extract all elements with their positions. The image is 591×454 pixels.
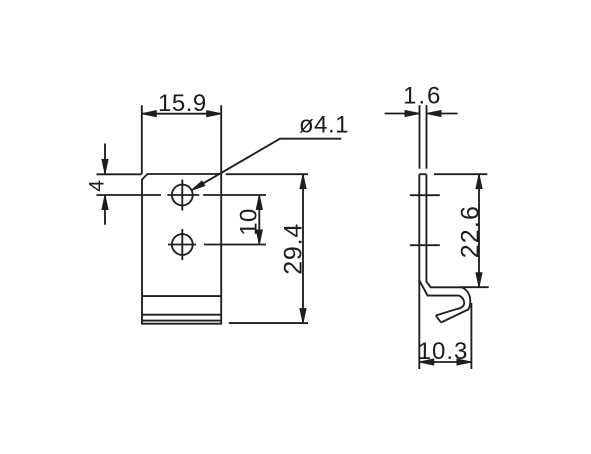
dim 29.4 line: [302, 174, 304, 323]
side profile top cap: [419, 173, 426, 175]
arrow 10.3 right: [457, 359, 472, 365]
arrow leader 4.1: [191, 181, 205, 190]
dim 4 lines: [97, 144, 142, 225]
arrow 10 bottom (down): [256, 230, 262, 245]
arrow 15.9 right: [207, 111, 222, 117]
centerline H1 vertical: [181, 180, 183, 211]
svg-text:ø4.1: ø4.1: [299, 112, 349, 139]
dim 22.6 extension lines: [434, 174, 489, 287]
side hole tick 2: [410, 244, 440, 246]
hole H1: [172, 185, 193, 206]
arrow 4 top (down): [102, 159, 108, 174]
side profile outer bend bottom: [419, 280, 459, 295]
dim 10.3 extension lines: [470, 303, 472, 369]
arrow 10 top (up): [256, 195, 262, 210]
hole H2: [172, 234, 193, 255]
hook inner curl and tail: [436, 296, 464, 316]
svg-text:4: 4: [86, 180, 109, 192]
arrow 4 bottom (up): [102, 195, 108, 210]
dim 15.9 extension lines: [142, 105, 221, 174]
svg-text:10: 10: [236, 208, 263, 236]
arrow 15.9 left: [142, 111, 157, 117]
arrow 29.4 bottom (down): [300, 309, 306, 324]
centerline H2 vertical: [181, 229, 183, 260]
side profile left outer edge: [418, 174, 420, 369]
side view 1.6 extension lines: [420, 105, 427, 169]
hook outer curl and tail: [441, 287, 470, 322]
arrow 29.4 top (up): [300, 174, 306, 189]
dim 10.3 line: [419, 361, 471, 363]
side profile inner edge: [426, 174, 461, 287]
arrow 1.6 right (pointing left): [427, 110, 442, 116]
svg-text:15.9: 15.9: [158, 90, 207, 117]
dim 15.9 line: [142, 113, 221, 115]
arrow 10.3 left: [419, 359, 434, 365]
hook tip cap: [436, 316, 441, 323]
centerline H2 horizontal: [168, 244, 266, 246]
svg-text:22.6: 22.6: [457, 205, 485, 258]
centerline H1 horizontal: [97, 194, 267, 196]
dim 10 line: [258, 195, 260, 245]
side hole tick 1: [410, 194, 440, 196]
plate outline (front view): [142, 174, 221, 324]
arrow 22.6 bottom (down): [476, 273, 482, 288]
dim 29.4 extension lines: [226, 174, 308, 323]
bend line 1: [142, 295, 221, 297]
svg-text:1.6: 1.6: [403, 82, 442, 109]
dim 1.6 lines: [385, 113, 458, 115]
dim 22.6 line: [478, 174, 480, 287]
leader dia 4.1: [191, 139, 341, 191]
svg-text:29.4: 29.4: [280, 223, 308, 275]
svg-text:10.3: 10.3: [418, 338, 469, 365]
bend line 2: [142, 314, 221, 316]
arrow 22.6 top (up): [476, 174, 482, 189]
arrow 1.6 left (pointing right): [405, 110, 420, 116]
bend line 3: [142, 320, 221, 322]
